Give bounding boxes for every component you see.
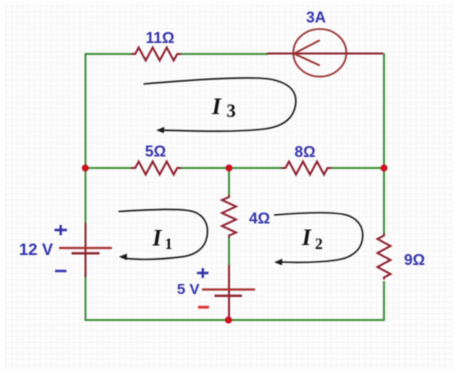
svg-text:3: 3 (227, 102, 236, 122)
svg-text:2: 2 (315, 236, 323, 253)
svg-text:12 V: 12 V (19, 241, 53, 259)
svg-text:8Ω: 8Ω (294, 144, 315, 161)
svg-text:5Ω: 5Ω (145, 144, 166, 161)
svg-text:1: 1 (165, 236, 173, 253)
svg-text:4Ω: 4Ω (249, 211, 270, 228)
svg-text:5 V: 5 V (177, 281, 200, 298)
svg-text:I: I (211, 94, 222, 119)
svg-text:11Ω: 11Ω (146, 30, 175, 47)
svg-text:9Ω: 9Ω (404, 252, 425, 269)
svg-text:I: I (152, 226, 163, 251)
svg-text:I: I (301, 225, 312, 250)
svg-text:3A: 3A (306, 10, 326, 27)
